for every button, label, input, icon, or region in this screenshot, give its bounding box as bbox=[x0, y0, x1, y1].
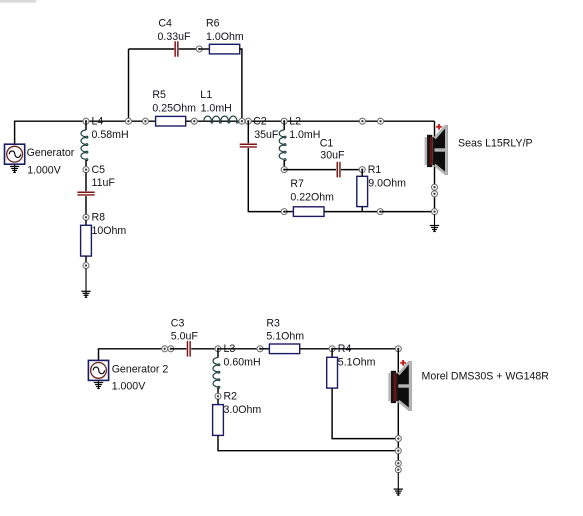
wire C2 lead top bbox=[247, 121, 249, 143]
node R8 top bbox=[83, 214, 89, 220]
svg-text:0.58mH: 0.58mH bbox=[92, 129, 129, 141]
speaker + mark 1 bbox=[436, 124, 442, 130]
generator U2 symbol bbox=[88, 360, 108, 380]
wire C1 to R1 bbox=[341, 169, 362, 171]
generator U1 symbol bbox=[5, 144, 25, 164]
ground generator 1 bbox=[10, 164, 19, 172]
svg-text:0.33uF: 0.33uF bbox=[158, 31, 192, 43]
wire R3 to R4 node bbox=[300, 348, 332, 350]
node main rail B bbox=[378, 118, 384, 124]
wire C4 branch top left segment bbox=[129, 48, 175, 50]
inductor L4 bbox=[81, 121, 88, 167]
wire L2 to C1 bbox=[284, 169, 336, 171]
svg-text:30uF: 30uF bbox=[320, 149, 345, 161]
wire C4 to node bbox=[179, 48, 199, 50]
svg-text:0.22Ohm: 0.22Ohm bbox=[290, 191, 334, 203]
svg-text:R3: R3 bbox=[266, 317, 280, 329]
svg-text:1.000V: 1.000V bbox=[112, 380, 147, 392]
svg-text:5.1Ohm: 5.1Ohm bbox=[266, 331, 304, 343]
node C4-R6 bbox=[196, 46, 202, 52]
svg-text:R5: R5 bbox=[152, 89, 166, 101]
resistor R7 bbox=[293, 207, 324, 217]
node R4 top bbox=[329, 346, 335, 352]
node main rail A bbox=[359, 118, 365, 124]
svg-text:9.0Ohm: 9.0Ohm bbox=[368, 177, 406, 189]
svg-text:L3: L3 bbox=[224, 343, 236, 355]
svg-text:R1: R1 bbox=[368, 164, 382, 176]
svg-text:5.1Ohm: 5.1Ohm bbox=[338, 357, 376, 369]
speaker S2 Morel bbox=[388, 361, 411, 411]
node R2 top bbox=[215, 393, 221, 399]
capacitor C5 bbox=[77, 192, 94, 195]
resistor R1 bbox=[357, 176, 368, 206]
svg-text:R7: R7 bbox=[290, 178, 304, 190]
resistor R5 bbox=[156, 116, 186, 126]
wire C4 branch left vertical bbox=[128, 49, 130, 121]
svg-text:R6: R6 bbox=[206, 17, 220, 29]
svg-text:R2: R2 bbox=[224, 391, 238, 403]
node R1 top bbox=[359, 167, 365, 173]
speaker + mark 2 bbox=[400, 360, 406, 366]
svg-text:Generator: Generator bbox=[27, 147, 75, 159]
svg-text:C4: C4 bbox=[158, 17, 172, 29]
node C5 top bbox=[83, 167, 89, 173]
inductor L3 bbox=[213, 349, 220, 394]
node speaker 1 bottom bbox=[432, 209, 438, 215]
ground generator 2 bbox=[94, 380, 103, 388]
wire R8 lead top bbox=[85, 220, 87, 225]
wire R8 lead bottom bbox=[85, 256, 87, 263]
svg-text:L4: L4 bbox=[92, 115, 104, 127]
wire C5 lead top bbox=[85, 172, 87, 191]
capacitor C3 bbox=[187, 341, 190, 357]
svg-text:L1: L1 bbox=[200, 89, 212, 101]
wire speaker 2 drop bbox=[397, 349, 399, 470]
node C3 left a bbox=[162, 346, 168, 352]
speaker S1 Seas bbox=[425, 125, 448, 175]
capacitor C4 bbox=[175, 41, 178, 57]
svg-text:0.60mH: 0.60mH bbox=[224, 357, 261, 369]
wire node to R3 bbox=[260, 348, 269, 350]
ground R8 bbox=[81, 268, 90, 297]
node junction C4-branch bbox=[126, 118, 132, 124]
node L3 top bbox=[215, 346, 221, 352]
wire generator to main rail corner bbox=[15, 121, 86, 144]
resistor R2 bbox=[213, 405, 224, 436]
wire bottom rail to speaker bbox=[380, 211, 434, 213]
svg-text:C5: C5 bbox=[92, 164, 106, 176]
node L2 bottom bbox=[281, 167, 287, 173]
node R5 right bbox=[191, 118, 197, 124]
svg-text:35uF: 35uF bbox=[254, 129, 279, 141]
wire C3 to L3 bbox=[191, 348, 218, 350]
svg-text:R4: R4 bbox=[338, 343, 352, 355]
node speaker2-R4 junction bbox=[395, 436, 401, 442]
node bottom rail mid bbox=[377, 209, 383, 215]
svg-text:L2: L2 bbox=[289, 115, 301, 127]
wire C3 lead left bbox=[171, 348, 187, 350]
node R3 left bbox=[257, 346, 263, 352]
wire R2 lead top bbox=[217, 399, 219, 405]
node L2 top bbox=[281, 118, 287, 124]
resistor R6 bbox=[209, 44, 239, 54]
resistor R3 bbox=[269, 344, 299, 354]
svg-text:Morel DMS30S + WG148R: Morel DMS30S + WG148R bbox=[422, 371, 550, 383]
inductor L2 bbox=[279, 121, 286, 167]
wire speaker 1 drop bbox=[434, 121, 436, 211]
node R7 left bbox=[281, 209, 287, 215]
wire R2 return to speaker bbox=[218, 435, 398, 450]
node speaker 2 top bbox=[395, 346, 401, 352]
wire R4 return to speaker bbox=[332, 388, 398, 439]
resistor R8 bbox=[81, 225, 92, 256]
svg-text:R8: R8 bbox=[92, 212, 106, 224]
svg-text:10Ohm: 10Ohm bbox=[92, 225, 127, 237]
node speaker 2 terminal a bbox=[395, 460, 401, 466]
wire L3 to R3 node bbox=[218, 348, 260, 350]
svg-text:C3: C3 bbox=[171, 317, 185, 329]
wire C2 to bottom rail bbox=[248, 148, 284, 212]
inductor L1 bbox=[204, 116, 239, 123]
capacitor C2 bbox=[240, 144, 257, 147]
wire main rail L4 to speaker corner bbox=[86, 120, 435, 122]
node speaker2-R2 junction bbox=[395, 448, 401, 454]
svg-text:C2: C2 bbox=[253, 115, 267, 127]
node C2 top bbox=[245, 118, 251, 124]
wire generator 2 to rail bbox=[99, 349, 165, 361]
wire node to R7 bbox=[284, 211, 293, 213]
svg-text:Generator 2: Generator 2 bbox=[112, 364, 169, 376]
resistor R4 bbox=[327, 357, 338, 388]
svg-text:Seas L15RLY/P: Seas L15RLY/P bbox=[458, 138, 533, 150]
node speaker 2 terminal b bbox=[395, 467, 401, 473]
wire rail to speaker 2 bbox=[332, 348, 398, 350]
ground speaker 2 bbox=[394, 473, 403, 496]
wire R1 lead bottom bbox=[361, 207, 363, 212]
node R8 bottom bbox=[83, 263, 89, 269]
node R5 left bbox=[142, 118, 148, 124]
svg-text:5.0uF: 5.0uF bbox=[171, 331, 199, 343]
wire node to R6 bbox=[199, 48, 209, 50]
wire R1 lead top bbox=[361, 170, 363, 177]
svg-text:1.000V: 1.000V bbox=[27, 165, 62, 177]
svg-text:11uF: 11uF bbox=[92, 177, 116, 189]
node speaker 1 terminal a bbox=[432, 184, 438, 190]
node C3 left b bbox=[168, 346, 174, 352]
wire R7 to node bbox=[324, 211, 380, 213]
svg-text:1.0Ohm: 1.0Ohm bbox=[206, 31, 244, 43]
svg-text:C1: C1 bbox=[320, 138, 334, 150]
node L4 top bbox=[83, 118, 89, 124]
svg-text:1.0mH: 1.0mH bbox=[201, 103, 232, 115]
wire R4 lead top bbox=[331, 349, 333, 358]
svg-text:1.0mH: 1.0mH bbox=[289, 129, 320, 141]
node speaker 1 terminal b bbox=[432, 191, 438, 197]
node branch-right junction bbox=[239, 118, 245, 124]
ground speaker 1 bbox=[430, 214, 439, 231]
wire C5 lead bottom bbox=[85, 196, 87, 215]
svg-text:0.25Ohm: 0.25Ohm bbox=[152, 103, 196, 115]
svg-text:3.0Ohm: 3.0Ohm bbox=[224, 404, 262, 416]
wire R6 branch right vertical bbox=[240, 49, 242, 121]
window edge remnant bbox=[0, 0, 36, 3]
capacitor C1 bbox=[337, 162, 340, 178]
